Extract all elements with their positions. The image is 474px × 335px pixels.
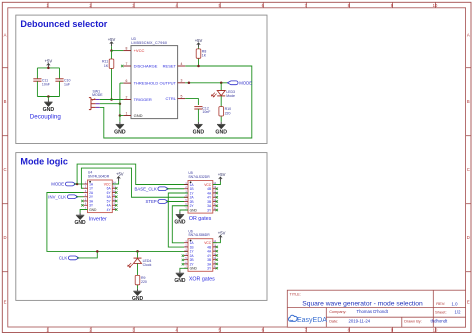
svg-text:220: 220 bbox=[225, 111, 231, 115]
svg-text:GND: GND bbox=[174, 278, 186, 284]
svg-text:Date:: Date: bbox=[329, 319, 338, 323]
junction clk bbox=[96, 250, 99, 253]
svg-text:CLK: CLK bbox=[59, 256, 67, 261]
wire baseclk bbox=[167, 188, 185, 190]
svg-text:+VCC: +VCC bbox=[134, 48, 145, 53]
svg-text:Inverter: Inverter bbox=[89, 217, 107, 223]
svg-text:Decoupling: Decoupling bbox=[30, 113, 62, 120]
svg-text:Mode logic: Mode logic bbox=[20, 157, 68, 167]
wire U6 gnd bbox=[180, 268, 188, 270]
section box: Mode logic bbox=[16, 153, 267, 301]
svg-text:C: C bbox=[467, 167, 470, 172]
junction reset bbox=[197, 65, 200, 68]
ground (R10) bbox=[220, 120, 222, 122]
net label STEP bbox=[158, 200, 169, 204]
svg-text:E: E bbox=[4, 300, 7, 305]
IC U4 SN74LS04DR bbox=[88, 180, 113, 213]
svg-text:GND: GND bbox=[89, 208, 97, 212]
NC U6 2Y bbox=[182, 263, 184, 265]
ground (U6) bbox=[179, 271, 181, 274]
svg-text:Debounced selector: Debounced selector bbox=[20, 19, 107, 29]
svg-text:E: E bbox=[467, 300, 470, 305]
svg-text:10: 10 bbox=[433, 3, 438, 8]
pin NC mark discharge bbox=[121, 65, 123, 67]
svg-text:SN74LS86DR: SN74LS86DR bbox=[188, 233, 210, 237]
LED LED4 bbox=[134, 257, 142, 259]
wire LED4 to R9 bbox=[137, 263, 139, 274]
svg-text:GND: GND bbox=[193, 129, 205, 135]
svg-text:GND: GND bbox=[75, 220, 87, 226]
wire THRESHOLD drop bbox=[119, 83, 121, 115]
wire C12 down bbox=[197, 109, 199, 122]
svg-text:7: 7 bbox=[126, 62, 128, 66]
svg-text:220: 220 bbox=[141, 280, 147, 284]
svg-text:DISCHARGE: DISCHARGE bbox=[134, 64, 158, 69]
svg-text:A: A bbox=[4, 33, 7, 38]
resistor R9 bbox=[137, 274, 139, 275]
svg-text:5: 5 bbox=[181, 94, 183, 98]
IC U6 SN74LS86DR bbox=[188, 239, 213, 272]
NC U4 3Y bbox=[81, 204, 83, 206]
wire C10 top lead bbox=[59, 68, 61, 79]
op-amp U3 body bbox=[131, 46, 178, 119]
wire +5V to VCC node bbox=[111, 46, 113, 50]
svg-text:GND: GND bbox=[174, 220, 186, 226]
net label CLK bbox=[68, 256, 79, 260]
junction gnd row bbox=[119, 114, 122, 117]
svg-text:3: 3 bbox=[181, 79, 183, 83]
wire U5 vcc bbox=[213, 182, 221, 185]
net label MODE (output) bbox=[228, 81, 238, 85]
svg-text:Sheet:: Sheet: bbox=[435, 309, 447, 314]
resistor R8 bbox=[198, 47, 200, 49]
svg-text:OUTPUT: OUTPUT bbox=[160, 80, 177, 85]
capacitor C12 bbox=[194, 106, 202, 108]
svg-text:D: D bbox=[467, 235, 470, 240]
svg-text:thdhondt: thdhondt bbox=[431, 319, 449, 324]
svg-text:LM555CMX_C7960: LM555CMX_C7960 bbox=[131, 41, 167, 45]
IC U5 SN74LS32DR bbox=[188, 181, 213, 214]
junction VCC node bbox=[110, 49, 113, 52]
svg-text:EasyEDA: EasyEDA bbox=[297, 317, 327, 324]
wire LED3 to R10 bbox=[220, 96, 222, 106]
junction row2 bbox=[119, 102, 122, 105]
junction led4 bbox=[136, 250, 139, 253]
ground (U3) bbox=[119, 116, 121, 122]
wire H1 bbox=[77, 164, 188, 184]
svg-text:SN74LS04DR: SN74LS04DR bbox=[88, 174, 110, 178]
svg-text:GND: GND bbox=[190, 267, 198, 271]
svg-text:GND: GND bbox=[190, 208, 198, 212]
svg-text:Company:: Company: bbox=[329, 310, 346, 314]
svg-text:B: B bbox=[4, 99, 7, 104]
svg-text:Thomas D'hondt: Thomas D'hondt bbox=[357, 309, 389, 314]
svg-text:+5V: +5V bbox=[108, 37, 116, 42]
svg-text:CTRL: CTRL bbox=[166, 96, 177, 101]
power +5V (decoupling) bbox=[47, 64, 49, 68]
svg-text:2: 2 bbox=[126, 95, 128, 99]
svg-text:+5V: +5V bbox=[218, 231, 226, 236]
wire C11 bottom lead bbox=[36, 81, 38, 96]
wire to +VCC pin bbox=[112, 50, 124, 52]
wire invclk bbox=[76, 196, 84, 198]
net label INV_CLK bbox=[67, 195, 78, 199]
svg-text:THRESHOLD: THRESHOLD bbox=[134, 81, 159, 86]
svg-text:REV:: REV: bbox=[436, 301, 445, 306]
svg-text:6: 6 bbox=[126, 79, 128, 83]
net label MODE bbox=[65, 182, 76, 186]
svg-text:Mode: Mode bbox=[226, 94, 235, 98]
svg-text:1K: 1K bbox=[202, 54, 207, 58]
NC U4 3A bbox=[81, 200, 83, 202]
wire clk bbox=[77, 251, 97, 258]
wire U5 2Y to U6 1A bbox=[172, 206, 188, 243]
svg-text:4: 4 bbox=[181, 62, 183, 66]
svg-text:RESET: RESET bbox=[163, 64, 177, 69]
svg-text:Drawn By:: Drawn By: bbox=[404, 319, 422, 323]
ground (C12) bbox=[197, 122, 199, 125]
junction output a bbox=[188, 82, 191, 85]
NC U6 2B bbox=[182, 259, 184, 261]
capacitor C11 bbox=[33, 78, 41, 80]
wire decoupling top bbox=[37, 67, 59, 69]
power +5V (U6) bbox=[219, 236, 221, 240]
U3 right pins bbox=[178, 65, 186, 67]
wire SW1 to TRIGGER bbox=[100, 99, 124, 101]
wire U4 gnd bbox=[80, 210, 87, 213]
svg-text:1/2: 1/2 bbox=[455, 310, 462, 315]
junction top bbox=[47, 67, 50, 70]
junction mode bbox=[76, 183, 79, 186]
power +5V (U5) bbox=[219, 177, 221, 181]
U3 left pins bbox=[123, 50, 131, 52]
wire mode bbox=[74, 183, 84, 185]
svg-text:TRIGGER: TRIGGER bbox=[134, 97, 152, 102]
ground (decoupling) bbox=[47, 97, 49, 100]
svg-text:MODE: MODE bbox=[92, 93, 103, 97]
svg-text:10nF: 10nF bbox=[202, 110, 210, 114]
svg-text:+5V: +5V bbox=[116, 172, 124, 177]
wire output to LED3 bbox=[220, 83, 222, 90]
svg-text:10nF: 10nF bbox=[42, 82, 50, 86]
svg-text:GND: GND bbox=[132, 296, 144, 302]
svg-text:Clock: Clock bbox=[143, 263, 152, 267]
wire U5 gnd bbox=[180, 210, 188, 212]
junction trigger node bbox=[110, 98, 113, 101]
wire decoupling bottom bbox=[37, 96, 59, 98]
wire step bbox=[167, 201, 185, 203]
wire to GND pin bbox=[120, 115, 124, 117]
svg-text:A: A bbox=[467, 33, 470, 38]
svg-text:Square wave generator - mode s: Square wave generator - mode selection bbox=[302, 300, 423, 307]
svg-text:+5V: +5V bbox=[195, 38, 203, 43]
wire ctrl bbox=[185, 99, 198, 105]
svg-text:1uF: 1uF bbox=[64, 82, 70, 86]
svg-text:SN74LS32DR: SN74LS32DR bbox=[188, 175, 210, 179]
resistor R11 bbox=[111, 51, 113, 59]
ground (U5) bbox=[179, 212, 181, 215]
svg-text:TITLE:: TITLE: bbox=[290, 292, 301, 296]
svg-text:1.0: 1.0 bbox=[452, 301, 459, 306]
wire H2 bbox=[81, 168, 188, 197]
wire output bbox=[185, 82, 229, 84]
resistor R10 bbox=[220, 105, 222, 108]
EasyEDA logo bbox=[289, 315, 298, 321]
svg-text:STEP: STEP bbox=[145, 199, 156, 204]
svg-text:GND: GND bbox=[134, 113, 143, 118]
LED LED3 bbox=[217, 91, 225, 96]
svg-text:INV_CLK: INV_CLK bbox=[48, 194, 66, 199]
svg-text:B: B bbox=[467, 99, 470, 104]
capacitor C10 bbox=[55, 78, 63, 80]
svg-text:8: 8 bbox=[126, 46, 128, 50]
svg-text:10: 10 bbox=[433, 328, 438, 333]
svg-text:D: D bbox=[3, 235, 6, 240]
svg-text:OR gates: OR gates bbox=[189, 216, 212, 222]
wire U5 1Y to U6 1B bbox=[168, 193, 188, 247]
wire SW1 row2 bbox=[100, 103, 120, 105]
ground (R9) bbox=[137, 289, 139, 292]
wire C11 top lead bbox=[36, 68, 38, 79]
wire U4 vcc bbox=[112, 181, 118, 184]
svg-text:MODE: MODE bbox=[239, 81, 252, 86]
wire to LED4 bbox=[137, 251, 139, 257]
junction bottom bbox=[47, 95, 50, 98]
svg-text:GND: GND bbox=[215, 129, 227, 135]
svg-text:XOR gates: XOR gates bbox=[189, 276, 215, 282]
net label BASE_CLK bbox=[158, 187, 169, 191]
title block bbox=[287, 290, 465, 327]
svg-text:1K: 1K bbox=[104, 64, 109, 68]
wire U4 2A long loop bbox=[47, 193, 188, 252]
wire loop bbox=[100, 66, 252, 138]
power +5V (R11) bbox=[111, 42, 113, 46]
section box: Debounced selector bbox=[16, 15, 267, 143]
svg-text:C: C bbox=[3, 167, 6, 172]
wire U6 vcc bbox=[213, 240, 221, 243]
power +5V (U4) bbox=[118, 177, 120, 181]
power +5V (R8) bbox=[198, 43, 200, 47]
svg-text:+5V: +5V bbox=[218, 172, 226, 177]
wire C10 bottom lead bbox=[59, 81, 61, 96]
svg-text:2019-11-24: 2019-11-24 bbox=[349, 319, 371, 324]
svg-text:MODE: MODE bbox=[51, 182, 64, 187]
svg-text:GND: GND bbox=[43, 107, 55, 113]
ground (U4) bbox=[79, 213, 81, 216]
svg-text:1: 1 bbox=[126, 111, 128, 115]
svg-text:+5V: +5V bbox=[45, 59, 53, 64]
NC U6 2A bbox=[182, 255, 184, 257]
svg-text:GND: GND bbox=[114, 129, 126, 135]
svg-text:BASE_CLK: BASE_CLK bbox=[134, 186, 156, 191]
junction output b bbox=[220, 82, 223, 85]
